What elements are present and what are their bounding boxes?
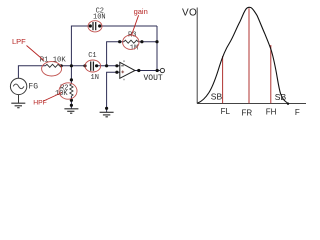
wire op-amp output to VOUT terminal [135, 70, 160, 72]
svg-text:LPF: LPF [12, 37, 26, 46]
wire C2 to right rail [100, 25, 157, 27]
svg-text:1N: 1N [91, 74, 99, 82]
resistor R2 [70, 84, 73, 96]
svg-text:SB: SB [211, 92, 223, 102]
annotation line LPF to R1 [27, 46, 45, 61]
svg-text:FR: FR [242, 108, 253, 117]
wire R2 to ground [70, 96, 72, 109]
wire FG to R1 [18, 66, 45, 78]
svg-text:FH: FH [266, 108, 277, 117]
red ellipse around R1 [42, 62, 62, 76]
curve end dot [287, 103, 289, 105]
source FG [10, 78, 26, 103]
svg-text:VO: VO [182, 7, 197, 18]
capacitor C1 [91, 62, 94, 71]
wire inverting node up to R3 [107, 42, 124, 66]
resistor R3 [124, 40, 138, 43]
wire R3 right to rail [138, 41, 157, 43]
ground under R2 [64, 109, 78, 113]
wire C1 to op-amp inverting input [97, 65, 120, 67]
wire R1 to node A to C1 [60, 65, 86, 67]
red ellipse around C2 [88, 21, 102, 32]
wire op-amp plus input to ground [107, 72, 120, 112]
junction dots [60, 24, 159, 110]
ground under FG [11, 103, 25, 108]
svg-text:C1: C1 [88, 52, 96, 60]
VOUT terminal [160, 68, 164, 72]
response curve [197, 7, 288, 103]
ground under op-amp plus input [100, 112, 114, 117]
annotation line HPF to R2 [44, 93, 62, 101]
svg-text:FG: FG [28, 83, 38, 92]
red ellipse around R3 [123, 35, 139, 49]
red line FR [248, 8, 250, 103]
svg-text:F: F [295, 108, 300, 117]
svg-text:VOUT: VOUT [144, 74, 163, 83]
red ellipse around C1 [85, 60, 101, 72]
op-amp U1 [120, 60, 135, 80]
red line FH [270, 45, 272, 103]
capacitor C2 [93, 22, 96, 30]
wire node A up and top rail to C2 [71, 26, 90, 66]
red ellipse around R2 [59, 83, 77, 99]
red line FL [222, 56, 224, 103]
graph Y axis [196, 8, 198, 104]
annotation line gain to R3 [132, 15, 139, 35]
wire right rail down to output [156, 26, 158, 71]
graph X axis [197, 103, 306, 105]
resistor R1 [46, 64, 60, 67]
svg-text:gain: gain [134, 7, 148, 16]
svg-text:FL: FL [221, 107, 231, 116]
svg-text:SB: SB [275, 92, 287, 102]
wire node A down to R2 [70, 66, 72, 84]
